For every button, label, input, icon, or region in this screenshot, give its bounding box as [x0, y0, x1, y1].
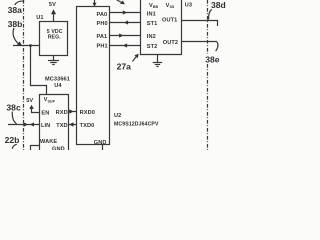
svg-text:MC33661: MC33661 — [45, 76, 70, 82]
arrow top leader — [120, 1, 125, 5]
leader arc 38b — [13, 28, 18, 44]
junction dot at U1 input — [29, 44, 31, 46]
svg-text:PA1: PA1 — [97, 34, 108, 40]
svg-text:TXD0: TXD0 — [80, 123, 95, 129]
wire PA1 to IN2 — [110, 35, 141, 37]
arrow into U2 top — [92, 3, 96, 7]
leader line top (into wires between U2 and U3) — [117, 0, 122, 3]
svg-text:ST2: ST2 — [147, 44, 158, 50]
svg-text:38b: 38b — [8, 19, 23, 29]
LIN bus wire (net 38c) — [8, 124, 40, 126]
LIN transceiver U4 box — [40, 95, 69, 152]
svg-text:38a: 38a — [8, 5, 23, 15]
arrow 5V up (EN) — [29, 105, 34, 109]
svg-text:RXD0: RXD0 — [80, 110, 95, 116]
svg-text:RXD: RXD — [56, 110, 68, 116]
svg-text:LIN: LIN — [41, 123, 50, 129]
wire RXD to RXD0 — [69, 111, 77, 113]
svg-text:EN: EN — [41, 111, 49, 117]
svg-text:PA0: PA0 — [97, 12, 108, 18]
arrow TXD0 to TXD — [69, 122, 73, 126]
wire PH0 to ST1 — [110, 22, 141, 24]
boundary dash-dot line left (22b) — [23, 0, 25, 150]
svg-text:5V: 5V — [26, 98, 33, 104]
wake switch box — [31, 146, 40, 152]
svg-text:WAKE: WAKE — [40, 139, 57, 145]
arrow RXD to RXD0 — [69, 109, 73, 113]
wire PH1 to ST2 — [110, 45, 141, 47]
svg-text:PH1: PH1 — [97, 44, 108, 50]
wire battery input to U1 (net 38b) — [13, 45, 40, 47]
svg-text:27a: 27a — [117, 62, 132, 72]
ground (U3) — [153, 63, 163, 67]
svg-text:VSS: VSS — [166, 3, 175, 9]
wire U2 GND down — [102, 145, 104, 151]
svg-text:U2: U2 — [114, 113, 121, 119]
wire U3 bottom to ground — [157, 55, 159, 63]
arrow 27a leader — [134, 54, 138, 59]
leader arc 38c — [12, 112, 16, 124]
arrow ST2-PH1 left — [123, 43, 127, 47]
motor driver U3 box — [141, 0, 182, 55]
svg-text:GND: GND — [52, 146, 65, 150]
leader line 27a — [133, 56, 137, 62]
arrow ST1-PH0 left — [124, 20, 128, 24]
svg-text:ST1: ST1 — [147, 21, 158, 27]
svg-text:38e: 38e — [205, 54, 220, 64]
leader arc 38d — [209, 9, 212, 19]
svg-text:38c: 38c — [6, 103, 21, 113]
voltage regulator U1 box — [40, 22, 68, 56]
arrow PA0-IN1 right — [123, 10, 127, 14]
svg-text:VBB: VBB — [149, 3, 159, 9]
leader arc 38a — [15, 1, 24, 5]
svg-text:U4: U4 — [54, 83, 62, 89]
ground (U1) — [48, 61, 59, 65]
wire 5V to U1 top — [53, 14, 55, 22]
wire OUT1 to 38d — [182, 21, 218, 27]
wire TXD to TXD0 — [69, 124, 77, 126]
svg-text:MC9S12DJ64CPV: MC9S12DJ64CPV — [114, 122, 159, 128]
boundary dash-dot line right — [207, 0, 209, 150]
svg-text:22b: 22b — [5, 135, 20, 145]
leader arc 38e — [216, 42, 218, 51]
svg-text:GND: GND — [94, 140, 107, 146]
svg-text:U3: U3 — [185, 3, 192, 9]
svg-text:IN1: IN1 — [147, 12, 156, 18]
arrow 5V up (U1) — [51, 9, 56, 14]
svg-text:38d: 38d — [211, 0, 226, 10]
svg-text:OUT1: OUT1 — [162, 18, 177, 24]
svg-text:U1: U1 — [36, 15, 43, 21]
svg-text:REG.: REG. — [48, 34, 62, 40]
svg-text:OUT2: OUT2 — [163, 40, 178, 46]
leader arc 22b — [12, 144, 17, 149]
svg-text:PH0: PH0 — [97, 21, 108, 27]
arrow PA1-IN2 right — [119, 33, 123, 37]
arrow 38b leader — [17, 41, 22, 45]
wire 5V into U2 top — [94, 0, 96, 7]
svg-text:TXD: TXD — [56, 123, 67, 129]
wire OUT2 to 38e — [182, 41, 218, 43]
wire PA0 to IN1 — [110, 12, 141, 14]
svg-text:VSUP: VSUP — [44, 97, 56, 103]
svg-text:5V: 5V — [49, 2, 56, 8]
microcontroller U2 box — [77, 7, 110, 145]
wire 5V to EN — [32, 109, 40, 113]
arrow LIN left — [30, 122, 34, 126]
svg-text:IN2: IN2 — [147, 34, 156, 40]
wire U1 bottom to ground — [53, 56, 55, 61]
wire node to VSUP of U4 — [31, 46, 47, 95]
arrow LIN right — [24, 122, 28, 126]
